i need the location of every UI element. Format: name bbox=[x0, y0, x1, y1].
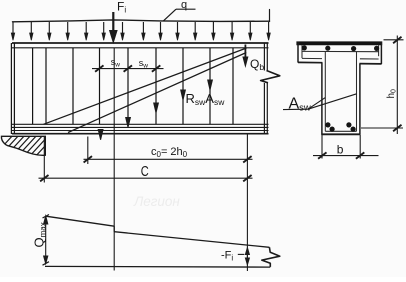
extension line c0 left bbox=[87, 137, 89, 165]
distributed load arrows bbox=[11, 22, 270, 40]
flange inner stirrup bbox=[302, 45, 379, 59]
svg-text:b: b bbox=[337, 142, 344, 156]
web right wall bbox=[359, 64, 361, 135]
web inner stirrup bbox=[325, 52, 356, 132]
beam end break zigzag bbox=[261, 71, 280, 83]
force F_i arrow bbox=[110, 12, 117, 42]
c ticks bbox=[40, 175, 252, 181]
c0 dimension line bbox=[84, 158, 253, 160]
web bottom bbox=[321, 133, 360, 135]
flange bottom left bbox=[298, 61, 322, 63]
Q_max dimension arrow bbox=[43, 215, 50, 266]
s_w ticks bbox=[95, 65, 160, 71]
extension line right (crack tip) bbox=[246, 135, 248, 272]
Q diagram break zigzag bbox=[262, 247, 280, 267]
label q bbox=[164, 0, 196, 21]
load line q bbox=[13, 20, 270, 22]
h0 ticks bbox=[393, 37, 401, 131]
crack line A bbox=[44, 48, 247, 124]
F_i axis line down through Q diagram bbox=[113, 48, 115, 271]
extension line c left bbox=[43, 136, 45, 183]
-F_i arrows bbox=[245, 248, 249, 265]
-F_i leader dash bbox=[238, 253, 245, 255]
beam right edge with break gap bbox=[264, 43, 267, 134]
cross-section flange left edge bbox=[297, 42, 299, 63]
Q_b arrow bbox=[243, 45, 248, 67]
load line right end tick bbox=[269, 10, 271, 22]
q leader bbox=[164, 9, 177, 21]
stirrups bbox=[33, 48, 233, 124]
support block hatched bbox=[0, 134, 56, 158]
s_w dimension line bbox=[92, 68, 164, 70]
cross-section flange top thick edge bbox=[296, 41, 382, 45]
h0 dimension bbox=[361, 36, 404, 135]
svg-text:C: C bbox=[141, 163, 149, 180]
Q diagram top line 1 bbox=[46, 216, 114, 226]
bottom rebar dots bbox=[325, 122, 355, 131]
flange bottom right bbox=[359, 63, 381, 65]
beam top chord bbox=[12, 43, 269, 48]
svg-text:Легион: Легион bbox=[133, 194, 180, 209]
crack line B bbox=[68, 53, 246, 133]
Q diagram baseline bbox=[45, 265, 270, 268]
flange rebar dots bbox=[302, 45, 380, 51]
Q diagram top line 2 bbox=[114, 232, 269, 248]
web left wall bbox=[321, 63, 323, 135]
b dimension bbox=[313, 135, 379, 159]
beam bottom chord bbox=[12, 124, 269, 133]
cross-section flange right edge bbox=[380, 42, 382, 65]
b ticks bbox=[318, 152, 364, 158]
stirrup force arrowheads R_sw A_sw bbox=[98, 80, 212, 140]
c0 ticks bbox=[84, 156, 252, 162]
c dimension line bbox=[39, 177, 253, 179]
A_sw underline and leaders bbox=[283, 94, 357, 110]
beam left edge bbox=[11, 43, 14, 134]
Q diagram step bbox=[113, 226, 115, 232]
